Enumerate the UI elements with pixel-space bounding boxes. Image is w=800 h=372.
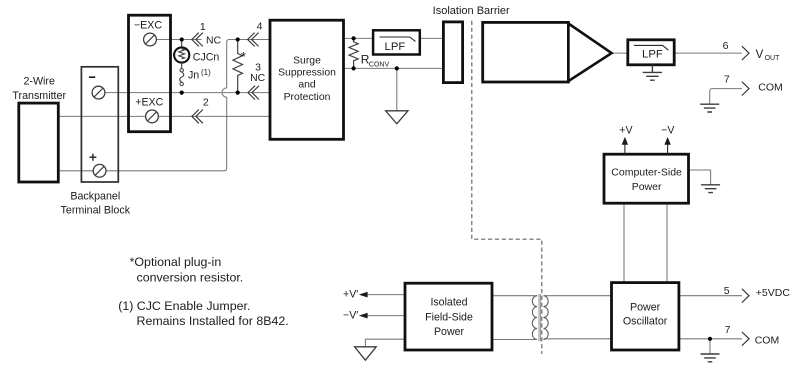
surge suppression box U1 — [270, 20, 344, 139]
svg-text:(1): (1) — [201, 68, 211, 77]
svg-text:1: 1 — [200, 21, 206, 33]
-V arrow up — [667, 144, 669, 154]
svg-text:2: 2 — [203, 97, 209, 109]
svg-text:Oscillator: Oscillator — [623, 316, 668, 328]
svg-text:COM: COM — [758, 82, 783, 94]
resistor RCONV — [349, 38, 358, 68]
CJCn sensor stem top — [181, 40, 183, 48]
wire: surge box bottom row to isolation block — [344, 67, 444, 69]
svg-text:6: 6 — [723, 40, 729, 52]
svg-text:+EXC: +EXC — [135, 97, 163, 109]
wire: +V' arrow to isolated field-side power — [366, 294, 406, 296]
wire: transmitter bottom via backpanel plus screw, up with hop over pin3 wire, to pin4 into surge box — [58, 40, 270, 171]
junction dot RCONV top — [352, 36, 356, 40]
svg-text:Suppression: Suppression — [278, 68, 336, 79]
field ground triangle under RCONV row — [386, 111, 408, 124]
svg-text:*: * — [241, 50, 246, 64]
svg-text:7: 7 — [725, 324, 731, 336]
svg-text:COM: COM — [755, 334, 780, 346]
computer-side power box — [604, 154, 689, 203]
wire: computer-side power to right ground — [689, 170, 711, 185]
2-wire transmitter box — [19, 103, 59, 182]
svg-text:NC: NC — [206, 36, 222, 47]
junction dot Jn bottom — [180, 91, 184, 95]
junction dot pin4 resistor top — [236, 37, 240, 41]
svg-text:Isolation Barrier: Isolation Barrier — [433, 5, 510, 17]
svg-text:3: 3 — [255, 62, 261, 74]
svg-text:5: 5 — [724, 285, 730, 297]
jumper Jn top pin circle — [180, 69, 183, 72]
svg-text:+V: +V — [619, 124, 633, 136]
svg-text:−V′: −V′ — [343, 309, 358, 321]
pin 1 chevron — [192, 33, 203, 47]
wire: backpanel minus screw through EXC block to pin3 into surge box — [99, 92, 271, 94]
svg-text:CONV: CONV — [369, 62, 390, 69]
junction dot CJC top — [180, 37, 184, 41]
screw terminal: backpanel minus — [92, 86, 105, 99]
wire: transformer secondary top through power oscillator to pin5 — [544, 295, 742, 297]
wire: pin7 top from ground corner — [710, 89, 742, 105]
pin 3 chevron — [248, 86, 259, 100]
svg-text:and: and — [298, 80, 316, 91]
svg-text:Field-Side: Field-Side — [425, 311, 473, 323]
+V arrow up — [624, 144, 626, 154]
wire: isolated field-side power to field ground triangle — [365, 339, 405, 347]
svg-text:+5VDC: +5VDC — [756, 287, 791, 299]
wire: -V' arrow to isolated field-side power — [366, 315, 406, 317]
wire: surge box to LPF1 to isolation block (top row) — [344, 37, 444, 39]
svg-text:Isolated: Isolated — [430, 297, 467, 309]
field ground triangle near isolated field-side power — [355, 347, 377, 360]
svg-text:OUT: OUT — [765, 55, 781, 62]
earth ground under LPF2 — [643, 65, 662, 80]
pin 5 chevron — [742, 289, 749, 303]
plus sign in backpanel block — [89, 154, 96, 161]
CJCn sensor circle — [174, 47, 189, 62]
-V' arrow left — [359, 313, 368, 319]
svg-text:(1) CJC Enable Jumper.: (1) CJC Enable Jumper. — [118, 299, 250, 313]
svg-text:7: 7 — [724, 74, 730, 86]
CJCn sensor stem bottom — [181, 63, 183, 69]
junction dot resistor bottom — [236, 91, 240, 95]
svg-text:*Optional plug-in: *Optional plug-in — [130, 255, 222, 269]
earth ground under pin7 COM dot — [701, 354, 720, 362]
transformer T1 secondary winding — [544, 296, 549, 340]
junction dot RCONV bottom — [352, 66, 356, 70]
svg-text:LPF: LPF — [385, 41, 406, 53]
svg-text:Power: Power — [630, 302, 661, 314]
wire: transmitter top to +EXC screw to pin2 into surge box — [58, 115, 270, 117]
wire: -EXC row to pin1 NC — [150, 39, 202, 41]
junction dot ground stem — [395, 66, 399, 70]
svg-text:Remains Installed for 8B42.: Remains Installed for 8B42. — [137, 314, 289, 328]
pin 6 chevron — [742, 46, 749, 60]
junction dot pin7 COM — [708, 337, 712, 341]
wire: computer-side power to power oscillator left connector — [623, 203, 625, 282]
svg-text:2-Wire: 2-Wire — [23, 76, 55, 88]
LPF2 box — [628, 40, 674, 65]
svg-text:Backpanel: Backpanel — [70, 191, 120, 203]
svg-text:Power: Power — [632, 181, 662, 193]
svg-text:Power: Power — [434, 326, 464, 338]
LPF2 response icon — [634, 45, 669, 50]
wire: transformer secondary bottom through power oscillator to pin7 COM — [544, 338, 742, 340]
isolated field-side power box — [405, 283, 492, 350]
wire: amp output through LPF2 to pin6 — [612, 52, 742, 54]
wire: ground stem below pin7 COM dot — [709, 339, 711, 354]
svg-text:−EXC: −EXC — [134, 20, 162, 32]
CJCn inner resistor zigzag — [179, 49, 185, 59]
pin 2 chevron — [192, 110, 203, 124]
wire: isolated field-side power to transformer primary bottom — [492, 339, 537, 341]
optional conversion resistor (star) — [233, 40, 243, 93]
earth ground at pin7 top — [700, 104, 719, 112]
wire: isolated field-side power to transformer primary top — [492, 295, 537, 297]
wire: ground stem below RCONV row — [396, 68, 398, 110]
svg-text:Transmitter: Transmitter — [12, 90, 66, 102]
svg-text:V: V — [756, 49, 764, 61]
svg-text:conversion resistor.: conversion resistor. — [137, 271, 244, 285]
svg-text:Surge: Surge — [293, 55, 321, 66]
earth ground right of computer-side power — [701, 185, 720, 193]
EXC terminal block box — [129, 15, 171, 132]
backpanel terminal block box — [81, 67, 118, 182]
svg-text:LPF: LPF — [642, 48, 663, 60]
transformer T1 core lines — [539, 294, 541, 341]
svg-text:Terminal Block: Terminal Block — [61, 205, 131, 217]
svg-text:CJCn: CJCn — [193, 51, 220, 63]
svg-text:−V: −V — [661, 124, 675, 136]
isolation barrier dashed line — [472, 21, 542, 354]
jumper Jn bottom pin circle — [180, 82, 183, 85]
screw terminal: backpanel plus — [93, 164, 106, 177]
LPF1 box — [373, 30, 420, 54]
transformer T1 primary winding — [532, 296, 537, 340]
jumper Jn wire squiggle — [180, 72, 184, 82]
isolation amplifier body — [483, 22, 569, 82]
isolation barrier coupling block — [443, 22, 462, 83]
svg-text:Protection: Protection — [284, 92, 331, 103]
LPF1 response icon — [380, 37, 416, 41]
svg-text:Computer-Side: Computer-Side — [611, 167, 682, 179]
svg-text:+V′: +V′ — [343, 289, 358, 301]
screw terminal: +EXC — [146, 110, 159, 123]
pin 7 chevron top — [742, 82, 749, 96]
svg-text:NC: NC — [250, 73, 266, 84]
power oscillator box — [612, 283, 679, 350]
wire: computer-side power to power oscillator right connector — [666, 203, 668, 282]
pin 7 chevron bottom — [742, 332, 749, 346]
screw terminal: -EXC — [144, 33, 157, 46]
svg-text:Jn: Jn — [188, 70, 199, 82]
svg-text:4: 4 — [257, 21, 263, 33]
minus sign in backpanel block — [89, 76, 95, 78]
pin 4 chevron — [248, 33, 259, 47]
isolation amplifier A1 triangle — [568, 24, 611, 82]
+V' arrow left — [359, 292, 368, 298]
